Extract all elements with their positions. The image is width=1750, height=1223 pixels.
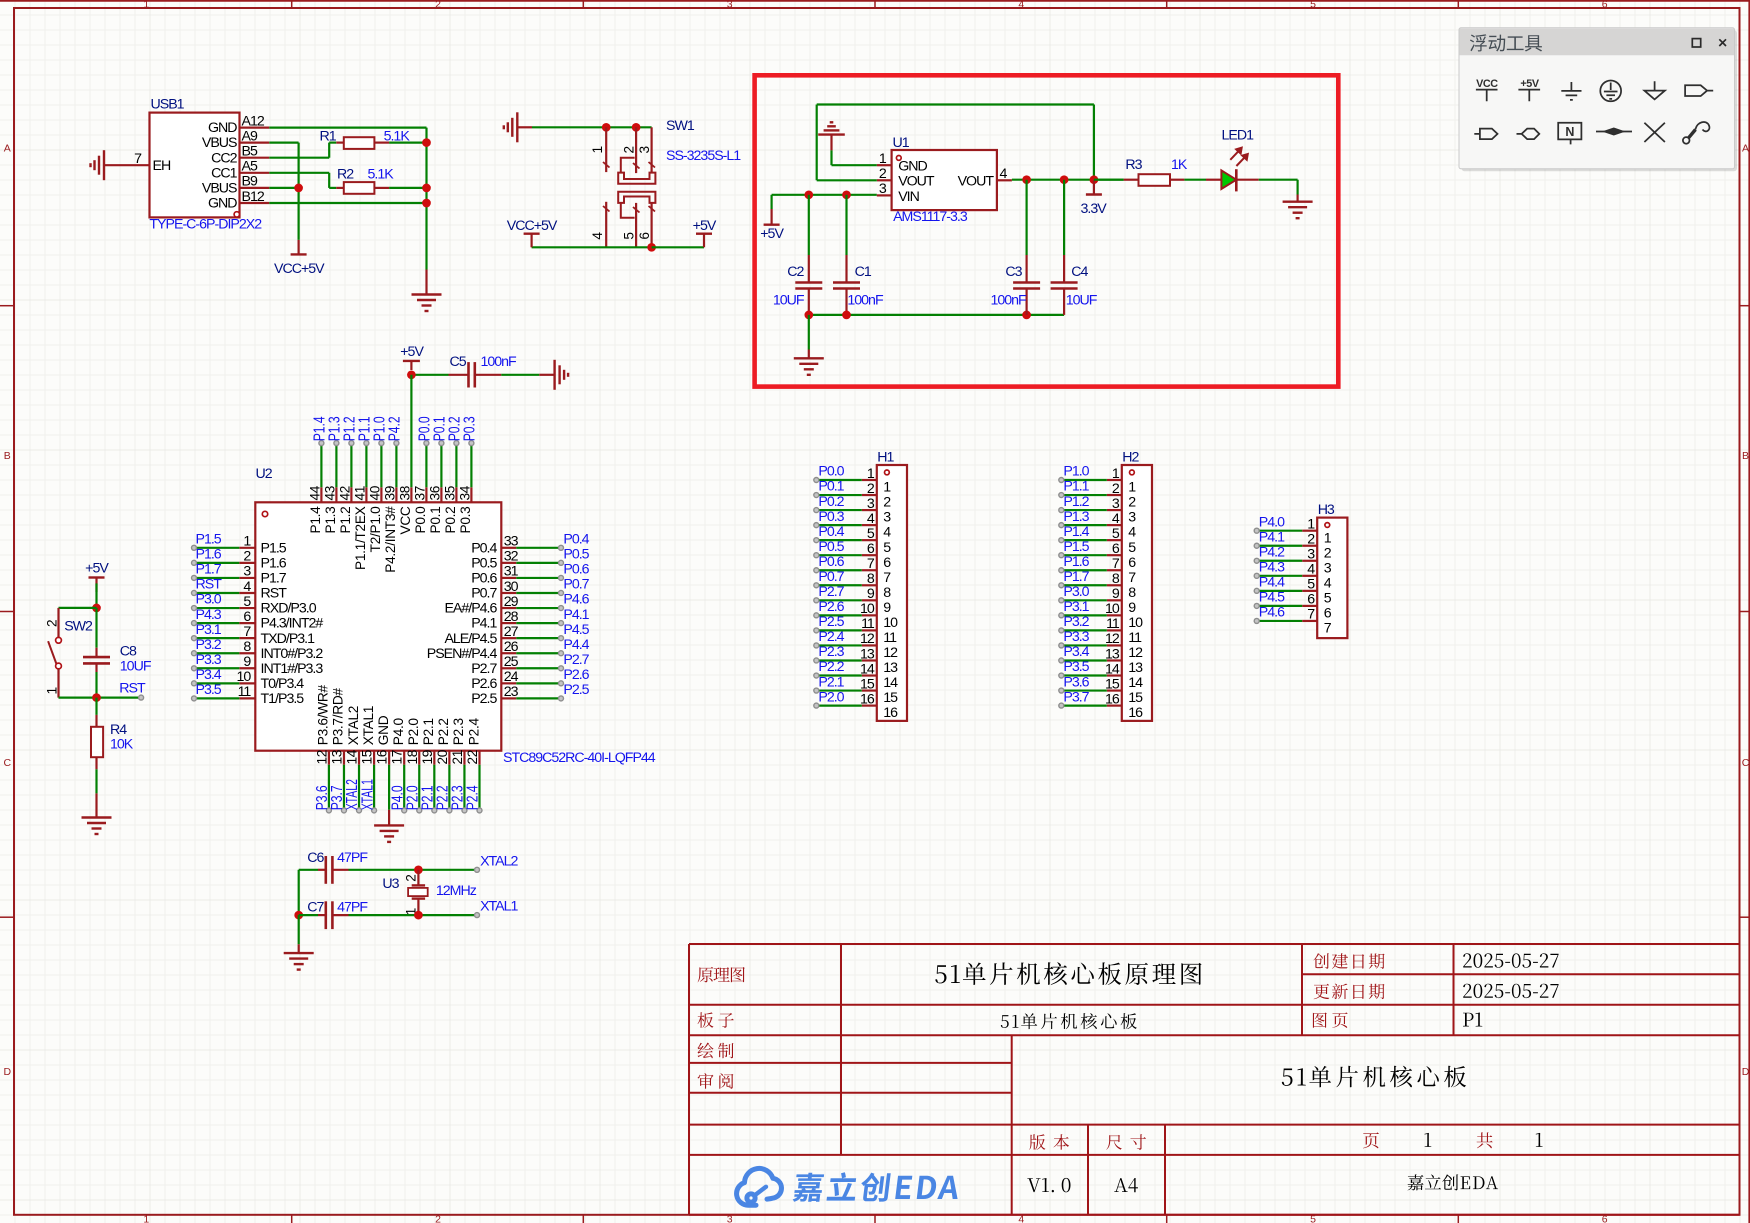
- svg-text:H1: H1: [877, 450, 894, 466]
- capacitor C7 plates: [324, 901, 327, 929]
- switch SW2 blade: [48, 641, 56, 664]
- svg-text:B: B: [4, 450, 11, 462]
- svg-text:SW1: SW1: [666, 118, 695, 134]
- svg-text:16: 16: [375, 749, 390, 764]
- wire CC2 up to R1: [328, 143, 330, 158]
- svg-text:30: 30: [504, 579, 519, 595]
- svg-text:P2.5: P2.5: [563, 682, 589, 698]
- svg-text:6: 6: [243, 609, 251, 625]
- junction SW1 pin2: [632, 123, 641, 132]
- svg-text:P4.6: P4.6: [563, 592, 589, 608]
- component H3 body: [1317, 518, 1347, 639]
- ground at C5: [539, 374, 554, 376]
- svg-text:P0.4: P0.4: [563, 532, 589, 548]
- svg-text:P2.7: P2.7: [818, 584, 844, 600]
- svg-text:P0.4: P0.4: [471, 540, 497, 556]
- svg-text:P4.3: P4.3: [196, 607, 222, 623]
- svg-text:10UF: 10UF: [120, 659, 152, 675]
- svg-text:10UF: 10UF: [773, 293, 805, 309]
- svg-text:P0.1: P0.1: [428, 507, 443, 534]
- svg-text:1: 1: [1128, 480, 1136, 496]
- svg-text:P4.2/INT3#: P4.2/INT3#: [383, 506, 398, 573]
- svg-text:P3.7: P3.7: [1063, 689, 1089, 705]
- ground at U1 GND: [818, 133, 845, 135]
- power VCC+5V at SW1: [530, 234, 532, 248]
- svg-text:CC1: CC1: [211, 165, 237, 181]
- svg-text:38: 38: [397, 485, 412, 500]
- svg-text:P1.3: P1.3: [1063, 509, 1089, 525]
- svg-text:P4.6: P4.6: [1259, 605, 1285, 621]
- svg-text:7: 7: [1324, 621, 1332, 637]
- power VCC+5V at USB: [298, 240, 300, 255]
- svg-text:11: 11: [861, 616, 875, 632]
- resistor R4 body: [91, 727, 103, 757]
- svg-text:EA#/P4.6: EA#/P4.6: [444, 601, 497, 617]
- svg-text:P4.1: P4.1: [563, 607, 589, 623]
- wire VOUT loop top: [817, 103, 1094, 105]
- wire B5 CC2: [269, 157, 329, 159]
- svg-text:INT0#/P3.2: INT0#/P3.2: [261, 646, 324, 662]
- svg-text:5: 5: [1112, 526, 1120, 542]
- capacitor C3 top lead: [1025, 180, 1027, 255]
- svg-text:18: 18: [405, 749, 420, 764]
- svg-text:P4.0: P4.0: [1259, 514, 1285, 530]
- capacitor C6 plates: [324, 856, 327, 884]
- svg-text:P1.1/T2EX: P1.1/T2EX: [353, 506, 368, 570]
- wire C5 to ground: [501, 374, 539, 376]
- wire +5V to VIN: [772, 194, 877, 196]
- LED LED1 cathode lead: [1236, 179, 1258, 181]
- svg-text:RXD/P3.0: RXD/P3.0: [261, 601, 317, 617]
- svg-text:B5: B5: [242, 144, 258, 160]
- sheet outer border: [0, 0, 1750, 2]
- svg-text:3: 3: [1128, 510, 1136, 526]
- svg-text:P2.2: P2.2: [818, 659, 844, 675]
- svg-text:P2.5: P2.5: [471, 691, 497, 707]
- svg-text:6: 6: [1324, 606, 1332, 622]
- wire SW2 top: [59, 607, 97, 609]
- capacitor C2 bottom lead: [808, 289, 810, 315]
- svg-text:15: 15: [1128, 690, 1143, 706]
- svg-text:28: 28: [504, 609, 519, 625]
- svg-text:P3.7/RD#: P3.7/RD#: [331, 688, 346, 746]
- svg-text:P1.6: P1.6: [261, 555, 287, 571]
- wire GND pin16: [388, 765, 390, 810]
- switch SW1 upper contact: [618, 173, 655, 184]
- svg-text:1: 1: [1324, 530, 1332, 546]
- svg-text:P3.5: P3.5: [1063, 659, 1089, 675]
- svg-text:3: 3: [637, 146, 652, 154]
- capacitor C8 plates: [83, 656, 110, 659]
- svg-text:XTAL1: XTAL1: [359, 779, 376, 810]
- svg-text:5: 5: [1324, 590, 1332, 606]
- svg-text:P2.4: P2.4: [818, 629, 844, 645]
- switch SW1 lower contact: [618, 192, 655, 203]
- svg-text:47PF: 47PF: [337, 850, 368, 866]
- svg-text:T0/P3.4: T0/P3.4: [261, 676, 305, 692]
- component H1 body: [877, 465, 907, 721]
- svg-text:10: 10: [1105, 601, 1120, 617]
- wire C6 left: [299, 869, 318, 871]
- svg-text:3: 3: [243, 564, 251, 580]
- LED LED1 anode lead: [1206, 179, 1221, 181]
- resistor R4 top lead: [95, 715, 97, 727]
- svg-text:P1.7: P1.7: [1063, 569, 1089, 585]
- ground at crystal: [298, 944, 300, 953]
- H3 pin1 marker: [1325, 523, 1330, 528]
- svg-text:7: 7: [1307, 607, 1315, 623]
- svg-text:C1: C1: [855, 264, 872, 280]
- wire LED to corner: [1259, 179, 1298, 181]
- toolbar icon net label: [1474, 129, 1497, 140]
- crystal U3 body: [408, 888, 428, 896]
- svg-text:P2.4: P2.4: [466, 718, 481, 746]
- svg-text:P2.0: P2.0: [406, 718, 421, 746]
- svg-text:P2.1: P2.1: [818, 674, 844, 690]
- svg-text:15: 15: [1105, 676, 1120, 692]
- svg-text:1: 1: [1112, 466, 1120, 482]
- svg-text:4: 4: [1000, 166, 1008, 182]
- capacitor C4 top lead: [1063, 180, 1065, 255]
- svg-text:26: 26: [504, 639, 519, 655]
- svg-text:P3.3: P3.3: [196, 652, 222, 668]
- svg-text:35: 35: [442, 485, 457, 500]
- junction SW1 pin1: [602, 123, 611, 132]
- junction VBUS-VCC: [294, 184, 303, 193]
- junction SW1 pin6: [647, 243, 656, 252]
- U1 pin 3 VIN: [877, 194, 892, 196]
- svg-text:P3.0: P3.0: [1063, 584, 1089, 600]
- capacitor C4 plates: [1051, 281, 1078, 284]
- power 3.3V flag: [1093, 180, 1095, 195]
- resistor R1 left lead: [329, 142, 336, 144]
- svg-text:P1.4: P1.4: [1063, 524, 1089, 540]
- svg-text:27: 27: [504, 624, 519, 640]
- junction reset top: [92, 604, 101, 613]
- wire right bus vertical: [425, 128, 427, 270]
- junction R2 out: [422, 184, 431, 193]
- svg-text:39: 39: [382, 486, 397, 501]
- svg-text:N: N: [1565, 125, 1574, 139]
- toolbar icon net flag: [1685, 85, 1713, 96]
- XTAL1 wire end: [475, 913, 480, 918]
- svg-text:2: 2: [879, 166, 887, 182]
- svg-text:+5V: +5V: [85, 560, 109, 576]
- svg-text:44: 44: [307, 485, 322, 500]
- svg-text:P0.2: P0.2: [443, 507, 458, 534]
- svg-text:XTAL2: XTAL2: [480, 853, 518, 869]
- svg-text:5: 5: [622, 232, 637, 240]
- svg-text:TXD/P3.1: TXD/P3.1: [261, 631, 316, 647]
- svg-text:P3.2: P3.2: [196, 637, 222, 653]
- svg-text:40: 40: [367, 485, 382, 500]
- svg-text:P4.1: P4.1: [1259, 529, 1285, 545]
- H1 wires: [819, 479, 862, 481]
- svg-text:P0.1: P0.1: [818, 479, 844, 495]
- wire B12 GND: [269, 202, 426, 204]
- svg-text:P0.0: P0.0: [818, 464, 844, 480]
- H1 wire ends: [814, 478, 819, 483]
- svg-text:USB1: USB1: [151, 97, 185, 113]
- svg-text:C6: C6: [307, 850, 324, 866]
- svg-text:C5: C5: [450, 354, 467, 370]
- svg-text:P3.0: P3.0: [196, 592, 222, 608]
- resistor R3 left lead: [1094, 179, 1124, 181]
- svg-text:14: 14: [1128, 675, 1143, 691]
- svg-text:A: A: [4, 143, 11, 155]
- switch SW1 pin 1: [605, 127, 607, 172]
- capacitor C5 left lead: [449, 374, 469, 376]
- junction C7 left: [294, 911, 303, 920]
- svg-text:7: 7: [867, 556, 875, 572]
- frame ruler ticks: [291, 0, 293, 8]
- capacitor C7 right lead: [332, 914, 348, 916]
- XTAL2 wire end: [475, 867, 480, 872]
- svg-text:2: 2: [1112, 481, 1120, 497]
- H2 wires: [1064, 479, 1107, 481]
- wire C7 to XTAL1: [349, 914, 478, 916]
- svg-text:1: 1: [879, 151, 887, 167]
- svg-text:3.3V: 3.3V: [1081, 201, 1108, 217]
- svg-text:16: 16: [860, 691, 875, 707]
- svg-text:C7: C7: [307, 900, 324, 916]
- svg-text:P1.5: P1.5: [1063, 539, 1089, 555]
- toolbar icon GND: [1561, 82, 1581, 100]
- resistor R2 left lead: [329, 187, 336, 189]
- svg-text:P2.3: P2.3: [818, 644, 844, 660]
- toolbar icon signal ground: [1644, 81, 1665, 99]
- svg-text:100nF: 100nF: [991, 293, 1028, 309]
- svg-text:VCC+5V: VCC+5V: [274, 261, 325, 277]
- wire A12 GND net: [269, 126, 426, 128]
- svg-text:P1.6: P1.6: [196, 547, 222, 563]
- svg-text:4: 4: [243, 579, 251, 595]
- svg-text:14: 14: [860, 661, 875, 677]
- U2 right wire ends: [559, 545, 564, 550]
- svg-text:4: 4: [1112, 511, 1120, 527]
- svg-text:16: 16: [1105, 691, 1120, 707]
- svg-text:5.1K: 5.1K: [384, 128, 411, 144]
- component U2 body: [255, 502, 501, 750]
- svg-text:C2: C2: [787, 264, 804, 280]
- resistor R3 body: [1139, 174, 1171, 186]
- junction R1 out: [422, 138, 431, 147]
- svg-text:P0.7: P0.7: [818, 569, 844, 585]
- wire CC1 down to R2: [328, 173, 330, 188]
- wire VOUT output row: [1012, 179, 1124, 181]
- svg-text:14: 14: [1105, 661, 1120, 677]
- USB1 pin1 marker: [234, 212, 239, 217]
- H3 wire ends: [1254, 528, 1259, 533]
- wire A5 CC1: [269, 172, 329, 174]
- svg-text:+5V: +5V: [400, 344, 424, 360]
- svg-text:SS-3235S-L1: SS-3235S-L1: [666, 148, 741, 164]
- svg-text:29: 29: [504, 594, 519, 610]
- svg-text:36: 36: [427, 485, 442, 500]
- toolbar icon +5V: [1518, 90, 1540, 102]
- svg-text:P4.5: P4.5: [563, 622, 589, 638]
- wire SW2 bottom to RST: [59, 696, 140, 698]
- LED LED1 cathode: [1235, 169, 1238, 191]
- switch SW1 pin 6: [650, 203, 652, 247]
- svg-text:2: 2: [404, 874, 419, 881]
- svg-text:P4.3: P4.3: [1259, 560, 1285, 576]
- ground at USB1 EH: [103, 150, 105, 180]
- svg-text:10: 10: [883, 615, 898, 631]
- svg-text:P2.2: P2.2: [436, 718, 451, 745]
- svg-text:7: 7: [1128, 570, 1136, 586]
- svg-text:B: B: [1742, 450, 1749, 462]
- crystal U3 top lead: [417, 870, 419, 886]
- svg-text:H3: H3: [1318, 502, 1335, 518]
- junction 3.3V node: [1090, 175, 1099, 184]
- svg-text:12MHz: 12MHz: [436, 883, 477, 899]
- svg-text:VIN: VIN: [898, 189, 919, 205]
- H2 pins: [1107, 479, 1122, 481]
- svg-text:11: 11: [238, 684, 252, 700]
- ground at C2: [808, 350, 810, 359]
- junction +5V C5: [407, 370, 416, 379]
- svg-text:VCC: VCC: [1476, 78, 1498, 90]
- svg-text:VCC: VCC: [398, 506, 413, 534]
- svg-text:P4.4: P4.4: [563, 637, 589, 653]
- svg-text:XTAL1: XTAL1: [480, 899, 518, 915]
- junction RST node: [92, 693, 101, 702]
- U1 pin 2 VOUT: [877, 179, 892, 181]
- U2 pin1 marker: [262, 511, 267, 516]
- svg-text:1: 1: [1307, 517, 1315, 533]
- svg-text:T2/P1.0: T2/P1.0: [368, 506, 383, 553]
- svg-text:RST: RST: [119, 681, 146, 697]
- wire +5V to C5: [411, 374, 448, 376]
- H1 pin1 marker: [885, 470, 890, 475]
- svg-text:P0.3: P0.3: [458, 506, 473, 534]
- U2 left wires: [196, 547, 239, 549]
- svg-text:6: 6: [1112, 541, 1120, 557]
- crystal U3 bottom lead: [417, 899, 419, 916]
- capacitor C6 right lead: [332, 869, 348, 871]
- capacitor C6 left lead: [318, 869, 326, 871]
- svg-text:2: 2: [1128, 495, 1136, 511]
- svg-text:P4.1: P4.1: [471, 616, 497, 632]
- svg-text:CC2: CC2: [211, 150, 237, 166]
- svg-text:U1: U1: [893, 135, 910, 151]
- svg-text:P2.1: P2.1: [421, 718, 436, 745]
- svg-text:9: 9: [1112, 586, 1120, 602]
- svg-text:P0.5: P0.5: [818, 539, 844, 555]
- wire C2 C1 bottom bus: [809, 314, 1064, 316]
- svg-text:4: 4: [1307, 562, 1315, 578]
- svg-text:P3.2: P3.2: [1063, 614, 1089, 630]
- svg-text:3: 3: [883, 510, 891, 526]
- U2 top wire ends: [319, 441, 324, 446]
- toolbar window buttons: [1692, 39, 1700, 47]
- svg-text:24: 24: [504, 669, 519, 685]
- svg-text:XTAL2: XTAL2: [346, 706, 361, 745]
- svg-text:1: 1: [867, 466, 875, 482]
- svg-text:U3: U3: [382, 876, 399, 892]
- svg-text:5: 5: [1128, 540, 1136, 556]
- junction XTAL2 node: [414, 865, 423, 874]
- svg-text:10: 10: [237, 669, 252, 685]
- svg-text:2: 2: [867, 481, 875, 497]
- svg-text:SW2: SW2: [64, 618, 93, 634]
- svg-text:GND: GND: [898, 159, 927, 175]
- svg-text:11: 11: [1106, 616, 1120, 632]
- svg-text:P2.3: P2.3: [451, 718, 466, 746]
- svg-text:P3.1: P3.1: [1063, 599, 1089, 615]
- svg-text:12: 12: [1105, 631, 1120, 647]
- svg-text:6: 6: [637, 232, 652, 240]
- toolbar panel: [1462, 30, 1738, 171]
- svg-text:H2: H2: [1122, 450, 1139, 466]
- svg-text:LED1: LED1: [1222, 128, 1255, 144]
- wire C6 to XTAL2: [349, 869, 478, 871]
- svg-text:8: 8: [1128, 585, 1136, 601]
- svg-text:22: 22: [465, 750, 480, 765]
- svg-text:P2.6: P2.6: [818, 599, 844, 615]
- capacitor C5 plates: [467, 362, 470, 387]
- U2 right wires: [516, 547, 559, 549]
- svg-text:1: 1: [883, 480, 891, 496]
- resistor R1 body: [344, 137, 375, 149]
- svg-text:+5V: +5V: [760, 226, 784, 242]
- toolbar icon earth ground: [1600, 81, 1621, 102]
- svg-text:13: 13: [883, 660, 898, 676]
- wire VOUT loop down: [1093, 105, 1095, 180]
- logo JLCEDA cloud: [737, 1168, 782, 1205]
- wire C7 left: [299, 914, 318, 916]
- svg-text:P0.7: P0.7: [563, 577, 589, 593]
- wire R4 to ground: [95, 769, 97, 793]
- wire SW1 pin6 to +5V: [652, 246, 704, 248]
- svg-text:B12: B12: [242, 189, 265, 205]
- svg-text:2: 2: [1307, 532, 1315, 548]
- wire +5V down to node: [95, 583, 97, 608]
- svg-text:VBUS: VBUS: [202, 135, 237, 151]
- svg-text:P3.3: P3.3: [1063, 629, 1089, 645]
- svg-text:INT1#/P3.3: INT1#/P3.3: [261, 661, 324, 677]
- H3 pins: [1302, 530, 1317, 532]
- toolbar icon netport N: [1558, 123, 1581, 145]
- svg-text:8: 8: [1112, 571, 1120, 587]
- svg-text:6: 6: [1307, 592, 1315, 608]
- crystal U3 plates: [412, 884, 425, 886]
- svg-text:P0.3: P0.3: [462, 416, 479, 441]
- junction C4 top: [1060, 175, 1069, 184]
- LED LED1 arrows: [1230, 152, 1238, 160]
- wire A9 VBUS: [269, 142, 298, 144]
- svg-text:RST: RST: [261, 586, 288, 602]
- svg-text:AMS1117-3.3: AMS1117-3.3: [893, 209, 968, 225]
- svg-text:23: 23: [504, 684, 519, 700]
- svg-text:P1.1: P1.1: [1063, 479, 1089, 495]
- svg-text:16: 16: [1128, 705, 1143, 721]
- wire LED gnd down: [1296, 180, 1298, 195]
- svg-text:1K: 1K: [1171, 157, 1188, 173]
- svg-text:100nF: 100nF: [481, 354, 518, 370]
- H2 wire ends: [1059, 478, 1064, 483]
- svg-text:8: 8: [867, 571, 875, 587]
- svg-text:9: 9: [1128, 600, 1136, 616]
- svg-text:P2.0: P2.0: [818, 689, 844, 705]
- svg-text:2: 2: [883, 495, 891, 511]
- resistor R2 right lead: [374, 187, 389, 189]
- wire VOUT loop left: [817, 179, 877, 181]
- capacitor C5 right lead: [475, 374, 502, 376]
- svg-text:R2: R2: [337, 166, 354, 182]
- svg-text:7: 7: [243, 624, 251, 640]
